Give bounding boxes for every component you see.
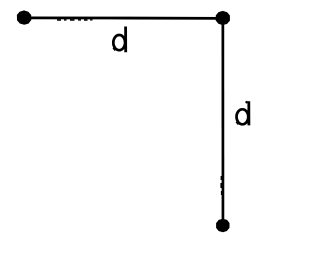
wire: horizontal segment between top-left and top-right nodes	[24, 17, 223, 20]
label d (horizontal distance)	[113, 27, 125, 53]
wire: scan noise dashes under horizontal wire	[57, 19, 93, 20]
node A: top-left point	[17, 10, 31, 24]
node C: bottom point	[216, 219, 229, 233]
wire: vertical segment between top-right and bottom nodes	[222, 18, 225, 220]
node B: top-right point	[216, 11, 230, 25]
wire: scan ticks on vertical wire	[220, 176, 222, 195]
label d (vertical distance)	[237, 101, 249, 125]
